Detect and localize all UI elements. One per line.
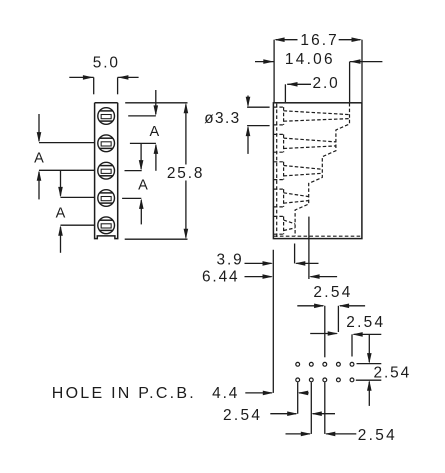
screw 2 (front view) [98,135,115,152]
screw 4 (front view) [98,190,115,207]
hole column extension lines [298,382,325,434]
screw4 leader (right) [122,197,141,199]
dimension 16.7 lines [274,37,362,102]
dimension 2.54 top text [313,284,352,301]
dimension ø3.3 arrows [246,96,251,154]
svg-text:ø3.3: ø3.3 [204,110,240,127]
label A (left lower) [56,205,66,221]
staircase internal boundary (dashed) [295,103,349,236]
section arrow down screw3-to-screw4 (left) [58,170,63,197]
funnel 2 (dashed section) [274,134,336,152]
dimension 3.9 lines [245,261,319,266]
svg-text:HOLE IN P.C.B.: HOLE IN P.C.B. [52,385,196,402]
dimension 5.0 text [93,55,120,72]
pin extension line (3.9) [294,244,296,264]
funnel 4 (dashed section) [274,189,309,207]
svg-text:14.06: 14.06 [285,51,335,68]
section arrow down to screw1 leader (right) [154,90,159,116]
side view: dashed left inner line [276,104,278,238]
svg-text:A: A [149,124,159,140]
svg-text:A: A [138,178,148,194]
dimension 25.8 text [167,165,205,182]
side view: body outline [273,103,362,239]
dimension 3.9 text [216,252,243,269]
funnel 3 (dashed section) [274,162,323,180]
dimension 2.54 bottom-right lines [286,432,357,437]
dimension 2.54 row-pitch text [374,365,412,382]
dimension 6.44 lines [245,274,338,279]
screw2 leader (right) [130,142,156,144]
dimension 4.4 text [212,385,239,402]
label A (right lower) [138,178,148,194]
dimension 14.06 text [285,51,335,68]
dimension ø3.3 leaders [247,107,270,125]
label A (right upper) [149,124,159,140]
screw1 leader (right) [128,115,156,117]
svg-text:2.54: 2.54 [346,314,385,331]
side view: dashed bottom line [274,235,361,237]
dimension 5.0 lines [69,75,138,94]
pin line below funnel 4 [308,217,310,279]
body-left extension line [272,250,274,393]
dimension 4.4 lines [245,391,308,396]
dimension 16.7 text [300,32,338,49]
dimension 14.06 lines [255,59,382,102]
dimension 2.54 row-pitch lines [356,334,382,406]
dimension 25.8 extension lines [125,103,188,239]
dimension 2.54 bottom-right text [358,427,397,444]
svg-text:A: A [34,150,44,166]
svg-text:A: A [56,205,66,221]
caption HOLE IN P.C.B. [52,385,196,402]
screw 3 (front view) [98,162,115,179]
svg-text:16.7: 16.7 [300,32,338,49]
PCB holes 2 rows x 5 cols [296,362,354,381]
screw3 leader (right) [125,170,142,172]
svg-text:25.8: 25.8 [167,165,205,182]
dimension 2.54 bottom-left text [223,407,262,424]
left view: terminal body outline [95,103,118,239]
svg-text:5.0: 5.0 [93,55,120,72]
screw 5 (front view) [98,217,115,234]
section arrow up to screw4 leader (right) [139,198,144,224]
dimension ø3.3 text [204,110,240,127]
section arrow up to screw5 leader (left) [58,225,63,253]
svg-text:2.54: 2.54 [358,427,397,444]
screw5 leader (left) [61,224,95,226]
svg-text:6.44: 6.44 [202,268,240,285]
section arrow up to screw3 leader (left) [37,170,42,199]
label A (left upper) [34,150,44,166]
svg-text:2.54: 2.54 [313,284,352,301]
svg-text:2.54: 2.54 [223,407,262,424]
svg-text:2.54: 2.54 [374,365,412,382]
svg-text:2.0: 2.0 [313,75,340,92]
svg-text:4.4: 4.4 [212,385,239,402]
dimension 6.44 text [202,268,240,285]
screw3 leader (left) [39,169,95,171]
dimension 2.54 second lines [310,331,381,356]
dimension 2.0 text [313,75,340,92]
dimension 2.54 bottom-left lines [270,411,335,416]
screw4 leader (left) [61,196,95,198]
dimension 2.54 top lines [297,304,365,358]
screw2 leader (left) [39,142,95,144]
section arrow up to screw2 leader (right) [154,143,159,170]
section arrow down to screw2 leader (left) [37,114,42,143]
funnel 5 (dashed section) [274,216,295,234]
svg-text:3.9: 3.9 [216,252,243,269]
section arrow down screw2-to-screw3 (right) [139,143,144,170]
dimension 2.54 second text [346,314,385,331]
screw 1 (front view) [98,108,115,125]
dimension 2.0 leader [285,82,311,102]
funnel 1 (dashed section) [274,107,350,125]
dimension 25.8 line and arrows [184,103,189,239]
